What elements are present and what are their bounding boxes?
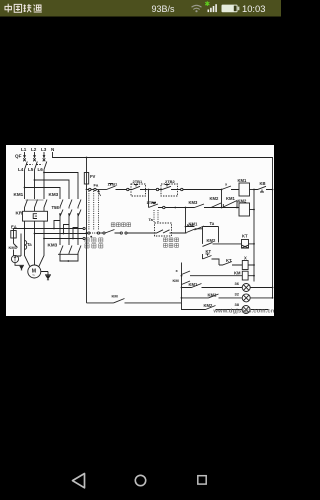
wire TSE pole 2 step bbox=[64, 225, 70, 234]
lamp row3 bbox=[182, 303, 243, 310]
svg-text:1TB1: 1TB1 bbox=[108, 182, 119, 187]
svg-text:www.dgjs123.com.cn: www.dgjs123.com.cn bbox=[212, 309, 274, 315]
motor M bbox=[28, 265, 41, 278]
lamp row1 bbox=[181, 287, 183, 289]
svg-text:KM3: KM3 bbox=[48, 243, 58, 248]
green activity star bbox=[205, 1, 209, 6]
wire phase C to autotransformer tap bbox=[44, 238, 83, 240]
signal bars bbox=[208, 4, 217, 12]
svg-text:L1: L1 bbox=[21, 147, 27, 152]
wire TSE pole 1 step bbox=[54, 221, 60, 229]
svg-text:T5E: T5E bbox=[52, 205, 60, 210]
svg-text:KT: KT bbox=[206, 249, 212, 254]
svg-text:38: 38 bbox=[235, 302, 240, 307]
status bar bbox=[0, 0, 281, 17]
svg-text:KM: KM bbox=[234, 271, 241, 276]
svg-text:L6: L6 bbox=[38, 167, 44, 172]
lamp row2 bbox=[181, 297, 183, 299]
svg-text:KB: KB bbox=[260, 181, 266, 186]
coil output rail bbox=[253, 190, 255, 282]
svg-text:L4: L4 bbox=[18, 167, 24, 172]
junction tap 3 bbox=[72, 238, 74, 240]
svg-text:FV: FV bbox=[90, 174, 96, 179]
svg-text:L3: L3 bbox=[41, 147, 47, 152]
lamp feeder vertical bbox=[181, 263, 183, 303]
svg-text:KM2: KM2 bbox=[210, 196, 220, 201]
carrier name 中国联通 drawn as vector glyphs bbox=[5, 4, 42, 13]
svg-text:Ta: Ta bbox=[210, 221, 215, 226]
svg-text:10:03: 10:03 bbox=[242, 3, 265, 14]
svg-text:KM3: KM3 bbox=[49, 192, 59, 197]
ground (meter) bbox=[19, 264, 24, 266]
svg-text:KT: KT bbox=[242, 234, 248, 239]
svg-text:KM: KM bbox=[112, 294, 119, 299]
svg-text:X: X bbox=[244, 256, 247, 261]
svg-text:Fa: Fa bbox=[94, 183, 99, 188]
svg-text:36: 36 bbox=[235, 281, 240, 286]
svg-text:KM3: KM3 bbox=[189, 200, 199, 205]
svg-text:KM1: KM1 bbox=[226, 196, 236, 201]
junction tap 1 bbox=[53, 228, 55, 230]
junction on L5 bbox=[34, 179, 36, 181]
wire phase C vertical bbox=[43, 172, 45, 197]
dashed linkage lines bbox=[88, 191, 90, 230]
white schematic sheet bbox=[6, 145, 274, 316]
junction tap 2 bbox=[63, 233, 65, 235]
svg-text:2TB2: 2TB2 bbox=[165, 179, 176, 184]
svg-text:L5: L5 bbox=[28, 167, 34, 172]
svg-text:Ta: Ta bbox=[27, 242, 32, 247]
通 bbox=[34, 5, 42, 12]
wire tap L4 to KM3 pole 1 bbox=[25, 188, 61, 197]
junction on phase A bbox=[24, 228, 26, 230]
wire phase B vertical bbox=[34, 172, 36, 197]
svg-text:~: ~ bbox=[32, 272, 35, 277]
联 bbox=[23, 4, 31, 12]
junction on phase B bbox=[34, 233, 36, 235]
国 bbox=[14, 4, 21, 12]
wire tap L5 to KM3 pole 2 bbox=[35, 180, 70, 197]
wire phase B to autotransformer tap bbox=[35, 233, 87, 235]
svg-text:2TB1: 2TB1 bbox=[133, 179, 144, 184]
svg-text:L2: L2 bbox=[31, 147, 37, 152]
label control contacts 控制触点 as pseudoglyphs bbox=[111, 223, 130, 227]
svg-text:KM: KM bbox=[173, 278, 180, 283]
control rail row1 bbox=[86, 189, 88, 191]
row3 KM1 aux / TA bbox=[185, 208, 187, 234]
secondary loop wire bbox=[20, 234, 22, 257]
svg-text:KM1: KM1 bbox=[238, 178, 248, 183]
wire phase A to autotransformer tap bbox=[25, 228, 83, 230]
wire phase A vertical bbox=[24, 172, 26, 197]
svg-text:QF: QF bbox=[15, 154, 22, 159]
wifi icon bbox=[192, 5, 202, 9]
ammeter A bbox=[11, 255, 18, 262]
svg-text:32: 32 bbox=[235, 292, 240, 297]
svg-text:KR: KR bbox=[16, 211, 23, 216]
wire tap L6 to KM3 pole 3 bbox=[44, 173, 78, 197]
中 bbox=[5, 4, 11, 13]
junction on L6 bbox=[43, 172, 45, 174]
battery bbox=[222, 5, 238, 13]
svg-text:KM: KM bbox=[187, 223, 194, 228]
vertical feed to row2 bbox=[148, 190, 150, 208]
junction on L4 bbox=[24, 187, 26, 189]
svg-text:KM1: KM1 bbox=[14, 192, 24, 197]
selector row4 bbox=[86, 191, 88, 303]
svg-text:Ta: Ta bbox=[149, 217, 154, 222]
star point bus bbox=[60, 253, 78, 254]
bottom nav: home circle bbox=[135, 475, 145, 485]
svg-text:KM1: KM1 bbox=[189, 282, 199, 287]
junction at control drop bbox=[86, 233, 88, 235]
selector position labels 自动/停止/手动 as pseudoglyphs bbox=[85, 238, 103, 248]
bottom nav: back triangle bbox=[73, 474, 85, 488]
svg-text:KM2: KM2 bbox=[204, 303, 214, 308]
terminal circle tap 1 bbox=[83, 227, 85, 229]
svg-text:KM2: KM2 bbox=[207, 238, 217, 243]
bottom nav: recents square bbox=[198, 476, 206, 484]
wires through KR bbox=[25, 211, 30, 266]
svg-text:93B/s: 93B/s bbox=[152, 4, 176, 14]
wire TSE pole 3 step bbox=[73, 228, 78, 239]
terminal circle tap 3 bbox=[83, 237, 85, 239]
ground (motor) bbox=[41, 272, 51, 275]
junction on phase C bbox=[43, 238, 45, 240]
wire N rail top bbox=[53, 152, 273, 298]
